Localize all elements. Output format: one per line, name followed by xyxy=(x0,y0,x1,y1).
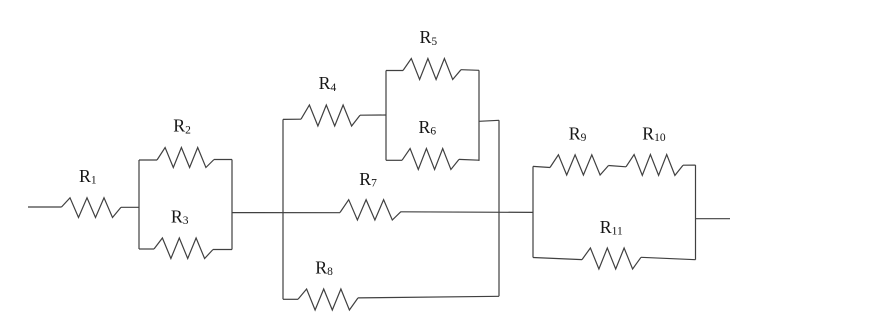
resistor R5 xyxy=(403,59,461,80)
resistor R2 xyxy=(157,148,214,168)
resistor R4 xyxy=(301,105,360,126)
wire left branch vertical (node A) xyxy=(282,119,284,299)
wire R5/R6 box to right branch vertical xyxy=(479,120,499,121)
wire R7 to right node xyxy=(401,211,533,214)
resistor R6 xyxy=(402,149,459,170)
wire right vertical of R2/R3 box xyxy=(231,160,233,250)
wire left vertical of R9/R11 box xyxy=(532,166,534,257)
wire middle node to R7 xyxy=(232,212,340,214)
wire bottom-left lead of R3 xyxy=(139,248,154,250)
resistor R10 xyxy=(626,155,683,176)
wire bottom lead into R8 xyxy=(283,298,298,300)
wire R1 to parallel box xyxy=(121,206,139,208)
wire top-left lead of R5 xyxy=(386,70,403,72)
wire right vertical of R9/R11 box xyxy=(695,165,697,260)
wire input lead xyxy=(28,206,62,208)
wire bottom-right lead of R3 xyxy=(213,249,232,251)
resistor R1 xyxy=(62,198,122,218)
resistor R8 xyxy=(298,289,358,310)
wire R9 to R10 xyxy=(609,166,627,167)
wire top-right lead of R5 xyxy=(461,69,479,72)
wire lead into R4 xyxy=(283,118,301,120)
wire right branch vertical (node B) xyxy=(498,120,500,296)
resistor R9 xyxy=(550,155,609,175)
wire right vertical of R5/R6 box xyxy=(478,70,480,161)
wire R4 to R5/R6 box xyxy=(360,114,386,116)
wire bottom-left lead of R11 xyxy=(533,258,582,260)
wire bottom-left lead of R6 xyxy=(386,159,402,161)
resistor R11 xyxy=(582,248,641,269)
resistor R3 xyxy=(154,238,213,259)
resistor R7 xyxy=(340,200,401,220)
wire top-left lead of R2 xyxy=(139,159,157,161)
wire output lead xyxy=(696,218,731,220)
wire bottom-right lead of R6 xyxy=(459,158,479,161)
wire top-right lead of R10 xyxy=(683,164,696,166)
wire left vertical of R2/R3 box xyxy=(138,160,140,249)
wire R8 to right branch vertical xyxy=(358,296,499,298)
wire bottom-right lead of R11 xyxy=(641,257,696,259)
wire top-left lead of R9 xyxy=(533,166,550,167)
wire top-right lead of R2 xyxy=(214,159,232,161)
wire left vertical of R5/R6 box xyxy=(385,71,387,161)
